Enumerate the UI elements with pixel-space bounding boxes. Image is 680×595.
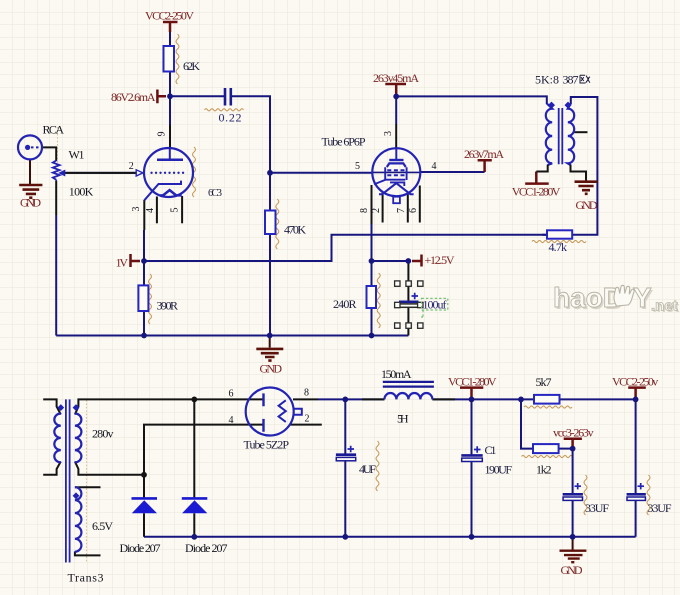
wire node B down to 470K [269, 173, 271, 211]
SQUIGGLES (compile-check wavy marks) [58, 34, 651, 562]
node VCC1-280V [469, 397, 475, 403]
squiggle beside capacitor 33UF (right) [647, 475, 650, 515]
svg-text:6: 6 [408, 208, 419, 213]
wire node C to output transformer primary [396, 96, 547, 104]
power bar VCC1-280V (supply) [460, 388, 483, 399]
node rail/4UF [342, 534, 348, 540]
svg-text:.net: .net [651, 298, 678, 315]
wire node A down to 6C3 plate [169, 96, 171, 125]
dotted guide beside transformer Trans3 [86, 400, 88, 562]
wire vcc3 node to 33UF left [572, 449, 574, 494]
wire OPT secondary top to feedback 4.7k [571, 97, 598, 235]
choke 5H [383, 382, 434, 400]
svg-text:4: 4 [229, 415, 234, 426]
wire diode D1 anode [143, 475, 145, 498]
pin 2 of tube 5Z2P [291, 424, 322, 426]
wire 390R to ground rail [143, 311, 145, 336]
wire 240R to ground rail [371, 308, 373, 336]
svg-text:GND: GND [576, 198, 598, 212]
node rail/470K [267, 333, 273, 339]
diode D2 (Diode 207) [182, 498, 208, 513]
node 5Z2P pin8 / 4UF [342, 397, 348, 403]
svg-text:263v45mA: 263v45mA [373, 71, 419, 85]
node rail/C1 [469, 534, 475, 540]
pin numbers tube 6P6P [355, 131, 437, 213]
svg-text:86V2.6mA: 86V2.6mA [111, 90, 156, 104]
probe 86V2.6mA [157, 90, 166, 104]
resistor 390R [138, 285, 148, 311]
svg-text:390R: 390R [157, 299, 179, 313]
pin stubs of choke 5H [362, 398, 455, 400]
wire 33UF right to ground rail [635, 501, 637, 537]
svg-text:VCC1-280V: VCC1-280V [448, 374, 497, 388]
wire 1V node to 390R [143, 261, 145, 285]
svg-text:GND: GND [20, 196, 41, 210]
wire 100uf bottom lead to ground rail [407, 308, 409, 336]
capacitor C1 190UF [461, 446, 482, 461]
svg-text:vcc3-263v: vcc3-263v [553, 425, 594, 439]
wire diode D1 cathode to rail [143, 513, 145, 537]
wire W1 bottom to ground rail [55, 215, 57, 336]
wire through tube (grid line) [372, 171, 420, 173]
pin 3 of tube 6C3 (cathode lead) [143, 200, 145, 230]
wire 470K to ground rail [269, 234, 271, 336]
wire 4UF bottom lead to ground rail [344, 461, 346, 537]
node 280v top / diode D2 [191, 397, 197, 403]
svg-text:7: 7 [396, 208, 407, 213]
wire cathode node to 240R [371, 261, 373, 286]
capacitor 100uf (selected) [395, 281, 448, 328]
svg-text:150mA: 150mA [381, 367, 412, 381]
output transformer (5K:8) [536, 102, 586, 179]
tube 5Z2P [246, 388, 302, 436]
svg-text:haoD: haoD [553, 282, 623, 313]
wire 100uf top lead [407, 261, 409, 301]
svg-text:190UF: 190UF [485, 463, 513, 477]
svg-text:6C3: 6C3 [208, 188, 222, 199]
power bar VCC2-250V (top) [163, 22, 178, 32]
power bar VCC1-280V (at OPT) [525, 172, 549, 184]
node rail/D2 [191, 534, 197, 540]
wire 5k7 to VCC2 corner [560, 398, 636, 400]
svg-text:5k7: 5k7 [536, 375, 552, 389]
power transformer Trans3 [54, 399, 81, 562]
probe 263v45mA [385, 84, 406, 96]
capacitor 33UF (left) [563, 483, 583, 500]
probe 1V [131, 254, 141, 267]
svg-text:+12.5V: +12.5V [425, 253, 455, 267]
wire ground rail (top section) [56, 335, 408, 337]
squiggle beside tube 6C3 [193, 147, 196, 197]
svg-text:33UF: 33UF [585, 501, 609, 515]
wire node B to 6P6P grid pin 5 [270, 172, 372, 174]
wire 280v bottom to 5Z2P pin 4 [144, 425, 264, 475]
wire 33UF left to ground rail [572, 501, 574, 537]
dotted guide beside potentiometer W1 [57, 127, 59, 164]
node 5k7/1k2 [518, 397, 524, 403]
ground (main, top section) [269, 336, 271, 348]
wire RCA to W1 top [42, 147, 56, 161]
squiggle beside capacitor 4UF [376, 441, 379, 491]
svg-text:8: 8 [304, 388, 309, 399]
svg-text:Diode 207: Diode 207 [120, 541, 161, 555]
diode D1 (Diode 207) [132, 498, 158, 513]
svg-text:100uf: 100uf [423, 298, 447, 312]
Trans3 6.5V top lead [75, 486, 101, 488]
svg-text:4: 4 [145, 208, 156, 213]
svg-text:5: 5 [170, 208, 181, 213]
svg-text:5: 5 [355, 161, 360, 172]
node rail/390R [141, 333, 147, 339]
squiggle beside capacitor 33UF (left) [584, 475, 587, 515]
capacitor 4UF [336, 446, 356, 461]
svg-text:Diode 207: Diode 207 [185, 541, 228, 555]
svg-text:VCC2-250V: VCC2-250V [145, 9, 194, 23]
squiggle beside resistor 390R [149, 274, 152, 324]
pin 2 of tube 6P6P [382, 193, 384, 223]
capacitor 0.22 [225, 88, 231, 106]
node vcc3-263v [570, 446, 576, 452]
squiggle beside resistor 62K [176, 34, 179, 84]
squiggle under resistor 4.7k [532, 240, 586, 242]
wire 1V node to feedback jog [144, 235, 547, 261]
squiggle under resistor 5k7 [524, 406, 572, 408]
wire 5k7 node down to 1k2 [521, 399, 533, 448]
svg-text:C1: C1 [485, 443, 497, 457]
Trans3 primary bottom lead [43, 462, 61, 475]
svg-text:5K:8: 5K:8 [535, 73, 559, 87]
svg-text:GND: GND [260, 362, 283, 376]
svg-text:W1: W1 [69, 148, 85, 162]
svg-text:Y: Y [633, 282, 652, 313]
wire VCC2 corner down to 33UF right [635, 399, 637, 494]
svg-text:Tube 6P6P: Tube 6P6P [322, 135, 366, 149]
svg-text:8: 8 [359, 208, 370, 213]
Trans3 primary top lead [43, 399, 61, 414]
node rail/240R [369, 333, 375, 339]
pin 8 of tube 5Z2P [293, 398, 318, 400]
wire 6P6P pin 4 to screen probe [420, 171, 484, 173]
pin 5 of tube 6C3 (heater) [181, 196, 183, 223]
pin 3 of tube 6P6P [395, 124, 397, 149]
squiggle under resistor 1k2 [522, 455, 573, 457]
node 280v bottom / diode D1 [141, 472, 147, 478]
Trans3 6.5V bottom lead [75, 551, 101, 555]
resistor 62K [164, 46, 175, 72]
svg-text:1k2: 1k2 [536, 463, 552, 477]
resistor 240R [367, 286, 377, 308]
wire 4.7k left lead [542, 234, 547, 236]
wire cap 0.22 to node B [231, 96, 270, 173]
pin numbers tube 5Z2P [229, 388, 310, 427]
node B (coupling to grid) [267, 170, 273, 176]
wire 62K to node A [169, 72, 171, 97]
probe vcc3-263v [564, 439, 582, 449]
svg-text:263v7mA: 263v7mA [464, 147, 504, 161]
glyph ohm (Chinese) in OPT label [580, 75, 590, 83]
Trans3 280v bottom lead [75, 462, 144, 475]
wire cathode node to 100uf [372, 260, 409, 262]
svg-text:1V: 1V [116, 256, 129, 270]
wire choke to VCC1 node [432, 398, 471, 400]
potentiometer W1 [53, 161, 65, 182]
svg-text:5H: 5H [397, 412, 409, 426]
tube 6P6P [372, 148, 420, 203]
svg-text:3: 3 [131, 207, 142, 212]
WATERMARK haoDIY.net [553, 282, 679, 316]
resistor 5k7 [534, 395, 560, 404]
svg-text:100K: 100K [69, 185, 94, 199]
wire VCC1 node to 5k7 node [472, 398, 535, 400]
pin 6 of tube 6P6P [419, 186, 421, 223]
squiggle beside resistor 470K [276, 199, 279, 249]
power bar VCC2-250v (supply) [628, 388, 646, 399]
connector RCA [18, 135, 42, 159]
node 263v45mA [393, 94, 399, 100]
PINS (black) [42, 124, 588, 555]
resistor 4.7k [547, 230, 572, 238]
svg-text:280v: 280v [92, 427, 114, 441]
wire node A to cap 0.22 [170, 95, 224, 97]
wire C1 top lead [471, 399, 473, 455]
wire 6P6P cathode pin 8 down [371, 224, 373, 261]
pin numbers tube 6C3 [129, 132, 181, 214]
wire 6C3 cathode to 1V node [143, 230, 145, 261]
wire 4UF top lead [344, 399, 346, 454]
svg-text:4.7k: 4.7k [549, 240, 568, 254]
svg-text:6: 6 [229, 389, 234, 400]
svg-text:VCC1-280V: VCC1-280V [512, 185, 561, 199]
svg-text:0.22: 0.22 [219, 111, 242, 125]
Trans3 280v top lead / rail to 5Z2P pin 6 [75, 399, 264, 414]
svg-text:62K: 62K [183, 59, 200, 73]
svg-text:9: 9 [157, 132, 168, 137]
capacitor 33UF (right) [627, 483, 646, 500]
pin 4 of tube 6C3 (heater) [156, 197, 158, 224]
svg-text:2: 2 [305, 414, 310, 425]
tube 6C3 [136, 148, 193, 200]
wire 6P6P plate pin 3 to node C [395, 96, 397, 124]
probe +12.5V [412, 255, 422, 267]
svg-text:470K: 470K [284, 223, 306, 237]
pin 2 of tube 6C3 (grid lead) [65, 172, 137, 174]
svg-text:Trans3: Trans3 [68, 571, 104, 585]
svg-text:RCA: RCA [43, 123, 65, 137]
node +12.5V [405, 258, 411, 264]
ground at OPT secondary [585, 172, 587, 181]
resistor 1k2 [533, 444, 559, 453]
ground (power supply) [572, 537, 574, 550]
wire diode D2 anode [193, 399, 195, 498]
svg-text:2: 2 [371, 208, 382, 213]
ground under RCA [29, 160, 31, 185]
svg-text:240R: 240R [333, 297, 357, 311]
svg-text:4UF: 4UF [359, 462, 376, 476]
wire 5Z2P pin 8 to choke [318, 398, 384, 400]
OPT secondary tap stub [575, 131, 588, 133]
wire diode D2 cathode to rail [193, 513, 195, 537]
wire potentiometer W1 wiper to 6C3 grid [65, 172, 137, 174]
node A (62K / 0.22 / plate) [167, 93, 173, 99]
pin 9 of tube 6C3 [169, 125, 171, 149]
pin stub W1 bottom [55, 181, 57, 215]
svg-text:2: 2 [129, 161, 134, 172]
svg-text:33UF: 33UF [648, 501, 672, 515]
wire VCC2 to 62K [169, 31, 171, 46]
probe 263v7mA [478, 160, 492, 172]
svg-text:GND: GND [561, 563, 583, 577]
svg-text:Tube 5Z2P: Tube 5Z2P [244, 438, 290, 452]
svg-text:VCC2-250v: VCC2-250v [612, 374, 658, 388]
squiggle beside resistor 240R [377, 273, 380, 328]
squiggle under capacitor 0.22 [205, 109, 244, 111]
pin 7 of tube 6P6P [407, 194, 409, 223]
node 6P6P cathode [369, 258, 375, 264]
svg-text:387: 387 [563, 73, 579, 87]
svg-text:4: 4 [432, 161, 437, 172]
svg-text:3: 3 [383, 131, 394, 136]
svg-text:6.5V: 6.5V [92, 519, 113, 533]
wire 1k2 to vcc3 node [559, 448, 573, 450]
pin 8 of tube 6P6P [371, 185, 373, 224]
node rail/33UF-GND [570, 534, 576, 540]
hand glyph (the I of DIY) [614, 285, 634, 306]
wire C1 bottom lead to ground rail [471, 462, 473, 537]
wire ground rail (power supply) [144, 536, 636, 538]
node VCC2-250v [633, 397, 639, 403]
resistor 470K [265, 211, 276, 235]
node 1V (6C3 cathode) [141, 258, 147, 264]
